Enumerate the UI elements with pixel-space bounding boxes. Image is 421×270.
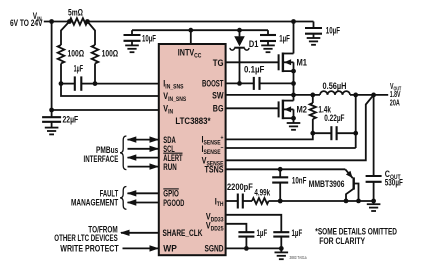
svg-text:WRITE PROTECT: WRITE PROTECT: [60, 243, 119, 253]
svg-text:RUN: RUN: [163, 162, 177, 172]
svg-text:LTC3883*: LTC3883*: [175, 116, 211, 126]
svg-text:OTHER LTC DEVICES: OTHER LTC DEVICES: [54, 233, 117, 243]
svg-text:0.22µF: 0.22µF: [324, 113, 345, 123]
svg-text:D1: D1: [249, 39, 259, 49]
svg-text:SGND: SGND: [205, 243, 224, 253]
svg-text:BG: BG: [213, 103, 224, 113]
svg-text:0.1µF: 0.1µF: [244, 65, 265, 75]
svg-text:MMBT3906: MMBT3906: [309, 179, 345, 189]
svg-text:5mΩ: 5mΩ: [68, 7, 83, 17]
svg-text:1µF: 1µF: [279, 33, 290, 43]
svg-text:3883 TA01a: 3883 TA01a: [290, 255, 307, 260]
svg-text:INTERFACE: INTERFACE: [84, 154, 119, 164]
svg-text:SW: SW: [212, 91, 224, 101]
svg-text:TG: TG: [213, 58, 224, 68]
svg-text:MANAGEMENT: MANAGEMENT: [71, 198, 119, 208]
svg-text:100Ω: 100Ω: [68, 49, 85, 59]
svg-text:22µF: 22µF: [63, 115, 79, 125]
svg-text:WP: WP: [163, 243, 177, 253]
svg-text:1µF: 1µF: [74, 64, 84, 74]
svg-text:SHARE_CLK: SHARE_CLK: [163, 228, 203, 238]
svg-text:530µF: 530µF: [385, 177, 403, 187]
svg-text:6V TO 24V: 6V TO 24V: [10, 18, 43, 28]
svg-text:BOOST: BOOST: [202, 79, 224, 89]
svg-text:100Ω: 100Ω: [102, 49, 119, 59]
svg-text:10nF: 10nF: [292, 175, 307, 185]
svg-text:PGOOD: PGOOD: [163, 198, 184, 208]
svg-text:4.99k: 4.99k: [254, 187, 270, 197]
svg-text:2200pF: 2200pF: [227, 182, 253, 192]
svg-text:TSNS: TSNS: [205, 165, 224, 175]
svg-text:M2: M2: [297, 104, 308, 114]
svg-text:20A: 20A: [390, 99, 400, 108]
svg-text:FOR CLARITY: FOR CLARITY: [319, 236, 365, 246]
svg-text:1µF: 1µF: [292, 228, 303, 238]
svg-text:M1: M1: [297, 58, 308, 68]
svg-text:10µF: 10µF: [326, 26, 341, 36]
svg-text:0.56µH: 0.56µH: [323, 81, 347, 91]
svg-text:10µF: 10µF: [142, 34, 156, 44]
svg-text:1µF: 1µF: [257, 228, 268, 238]
